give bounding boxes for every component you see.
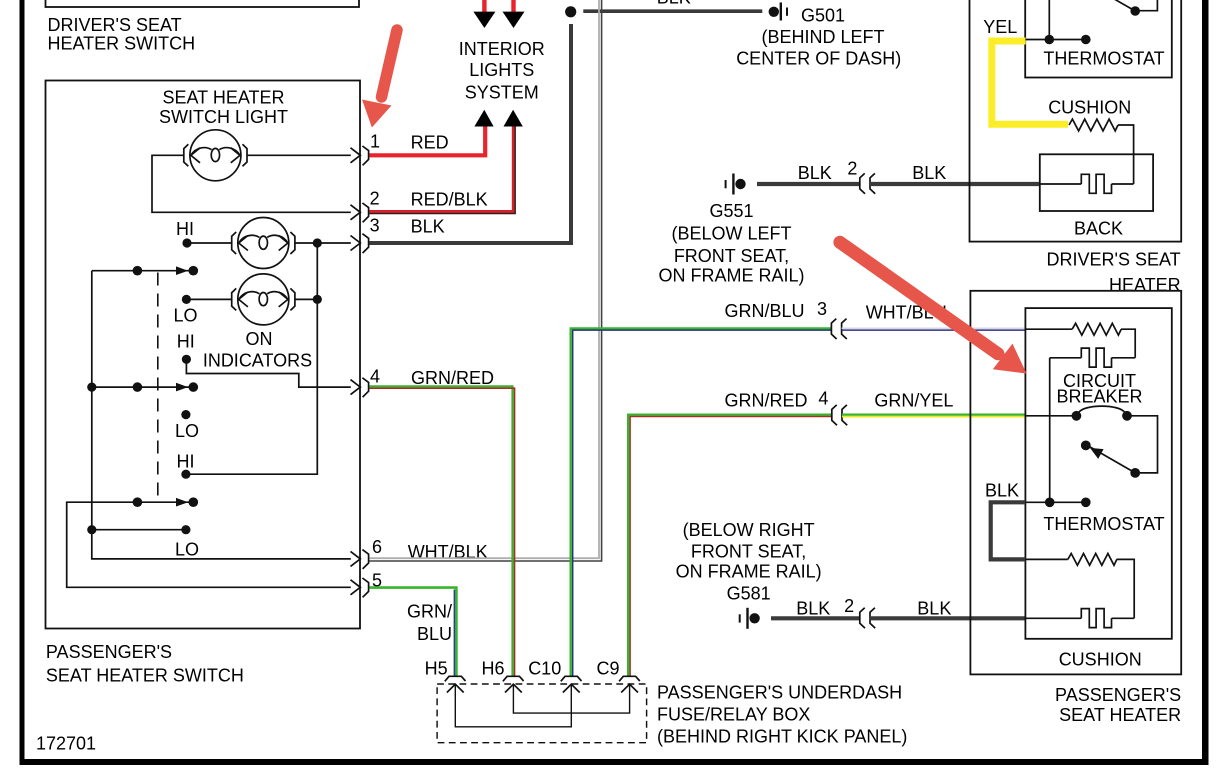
box: driver's seat heater outer (cut off at top) — [970, 0, 1182, 242]
wire: BLK jumper thermostat to cushion resistor — [991, 502, 1026, 559]
connector: in-line female 2 (G551 row) — [860, 173, 875, 193]
svg-text:2: 2 — [847, 159, 857, 179]
svg-text:BLK: BLK — [917, 598, 951, 618]
svg-text:BLU: BLU — [417, 624, 452, 644]
svg-text:HEATER SWITCH: HEATER SWITCH — [48, 34, 196, 54]
svg-text:(BELOW RIGHT: (BELOW RIGHT — [683, 520, 815, 540]
svg-text:THERMOSTAT: THERMOSTAT — [1043, 49, 1164, 69]
svg-text:LO: LO — [175, 421, 199, 441]
svg-text:C9: C9 — [597, 658, 620, 678]
svg-text:GRN/BLU: GRN/BLU — [725, 301, 805, 321]
wire: BLK to ground G501 — [583, 9, 762, 13]
svg-text:LO: LO — [175, 540, 199, 560]
svg-text:HEATER: HEATER — [1109, 275, 1181, 295]
svg-text:PASSENGER'S: PASSENGER'S — [46, 642, 172, 662]
connector: in-line female 3 — [831, 319, 846, 339]
wire: RED/BLK from pin 2 up to interior lights system — [369, 126, 513, 212]
svg-text:HI: HI — [177, 452, 195, 472]
svg-text:DRIVER'S SEAT: DRIVER'S SEAT — [48, 15, 182, 35]
svg-text:172701: 172701 — [36, 733, 96, 753]
wire: lamp right lead to pin 1 — [247, 154, 351, 156]
wire: HI indicator right lead to pin 3 — [295, 242, 351, 244]
svg-text:THERMOSTAT: THERMOSTAT — [1043, 514, 1164, 534]
svg-text:BLK: BLK — [411, 217, 445, 237]
wire: WHT/BLK from pin 6 up page (double line) — [369, 0, 599, 558]
thermostat switch arm (passenger) — [1130, 468, 1140, 478]
connector: pin 3 — [351, 234, 369, 253]
svg-text:3: 3 — [817, 299, 827, 319]
svg-text:SEAT HEATER: SEAT HEATER — [1059, 705, 1181, 725]
switch: pole 2 wiper row — [92, 386, 194, 388]
heating element: passenger seat cushion — [1025, 617, 1081, 619]
node: junction right of HI lamp — [313, 238, 322, 247]
wire: switch common vertical A to pin 6 — [92, 271, 351, 559]
connector: C10 terminal — [561, 676, 582, 692]
svg-text:C10: C10 — [528, 658, 561, 678]
box: passenger's seat heater outer — [970, 291, 1181, 675]
connector: pin 4 — [351, 378, 369, 397]
wire: breaker to thermostat switch arm — [1127, 416, 1158, 473]
svg-text:(BEHIND RIGHT KICK PANEL): (BEHIND RIGHT KICK PANEL) — [657, 727, 907, 747]
connector: in-line female 4 — [832, 405, 847, 425]
arrow: interior lights system up arrow (RED) — [474, 110, 493, 127]
node: HI contact dot pole 3 — [181, 470, 190, 479]
node: junction right of LO lamp — [313, 295, 322, 304]
svg-text:BLK: BLK — [796, 598, 830, 618]
wire: LO contact pole 3 to vertical A — [92, 529, 186, 531]
svg-text:G581: G581 — [727, 583, 771, 603]
svg-text:GRN/: GRN/ — [407, 602, 452, 622]
wire: red stub above right down arrow — [511, 0, 515, 13]
connector: H5 terminal — [445, 676, 466, 692]
svg-text:FRONT SEAT,: FRONT SEAT, — [674, 246, 789, 266]
resistor: passenger cushion heater — [1025, 558, 1067, 560]
box: driver's seat heater switch (partial, cut off at top) — [46, 0, 360, 7]
node: junction vertical A / LO pole 3 line — [87, 525, 96, 534]
svg-text:(BELOW LEFT: (BELOW LEFT — [671, 223, 791, 243]
svg-text:BLK: BLK — [657, 0, 691, 8]
wire: fuse box internal H5 to C10 — [455, 684, 571, 726]
lamp: seat heater switch light bulb — [184, 130, 247, 181]
svg-text:RED: RED — [411, 133, 449, 153]
annotation: red arrow 1 (points at pin 1) — [362, 30, 397, 128]
wire: red stub above left down arrow — [482, 0, 486, 13]
svg-text:FRONT SEAT,: FRONT SEAT, — [691, 541, 806, 561]
svg-text:3: 3 — [370, 216, 380, 236]
svg-text:BACK: BACK — [1074, 218, 1123, 238]
connector: pin 2 — [351, 203, 369, 222]
wire: fuse box internal H6 to C9 — [513, 684, 629, 713]
wire: lamp left lead to pin 2 — [152, 155, 351, 212]
wire: BLK from pin 3 up to G501 junction — [369, 24, 571, 243]
svg-text:ON: ON — [246, 329, 273, 349]
svg-text:GRN/RED: GRN/RED — [725, 391, 808, 411]
svg-text:6: 6 — [372, 537, 382, 557]
wire: LO indicator right lead — [295, 298, 317, 300]
wire: GRN from pin 5 down to H5 — [369, 588, 456, 676]
thermostat: passenger seat heater contacts — [1025, 501, 1085, 503]
connector: pin 5 — [351, 578, 369, 597]
box: passenger's seat heater inner — [1025, 308, 1171, 639]
lamp: LO on-indicator bulb — [232, 274, 295, 325]
node: LO contact dot pole 3 — [181, 525, 190, 534]
resistor: driver cushion heater — [1069, 119, 1118, 131]
wire: element left lead down to thermostat (passenger) — [1049, 358, 1051, 503]
svg-text:SEAT HEATER SWITCH: SEAT HEATER SWITCH — [46, 666, 244, 686]
svg-text:CUSHION: CUSHION — [1059, 650, 1142, 670]
wire: WHT/BLU to passenger seat heater — [842, 329, 1026, 331]
wire: BLK from connector to driver's seat heater back — [870, 182, 1040, 186]
node: HI contact dot pole 1 — [182, 238, 191, 247]
wire: LO indicator left lead — [186, 298, 231, 300]
wire: BLK from connector to passenger's seat heater cushion — [870, 616, 1026, 620]
annotation: red arrow 2 (points at passenger seat heater) — [840, 242, 1027, 373]
circuit breaker: passenger seat heater — [1072, 411, 1082, 421]
ground G551 — [735, 179, 745, 189]
svg-text:2: 2 — [844, 596, 854, 616]
switch: pole 3 wiper row to pin 5 — [67, 502, 351, 587]
wire: indicator common line down to pole 3 HI contact — [186, 243, 317, 474]
ground G581 — [749, 613, 759, 623]
svg-text:HI: HI — [177, 332, 195, 352]
resistor: passenger seat back heater top — [1025, 328, 1072, 330]
svg-text:LO: LO — [174, 306, 198, 326]
arrow: interior lights system down arrow left — [473, 12, 495, 28]
svg-text:H5: H5 — [425, 658, 448, 678]
node: BLK junction dot at top — [565, 6, 576, 17]
svg-text:YEL: YEL — [983, 17, 1017, 37]
svg-text:INTERIOR: INTERIOR — [459, 39, 545, 59]
node: junction vertical A / pole 2 — [87, 383, 96, 392]
svg-text:PASSENGER'S UNDERDASH: PASSENGER'S UNDERDASH — [657, 683, 902, 703]
svg-text:LIGHTS: LIGHTS — [469, 60, 534, 80]
svg-text:(BEHIND LEFT: (BEHIND LEFT — [761, 27, 884, 47]
svg-text:ON FRAME RAIL): ON FRAME RAIL) — [676, 562, 822, 582]
node: LO contact dot pole 1 — [182, 295, 191, 304]
box: passenger's underdash fuse/relay box (dashed) — [437, 684, 646, 743]
box: passenger's seat heater switch — [46, 81, 361, 629]
svg-text:GRN/YEL: GRN/YEL — [874, 391, 953, 411]
connector: C9 terminal — [619, 676, 640, 692]
svg-text:RED/BLK: RED/BLK — [411, 189, 488, 209]
wire: pole 2 HI contact to pin 4 — [186, 359, 350, 387]
svg-text:G551: G551 — [709, 201, 753, 221]
box: driver seat back heater — [1040, 154, 1153, 211]
connector: in-line female 2 (G581 row) — [860, 608, 875, 628]
connector: pin 6 — [351, 550, 369, 569]
svg-text:HI: HI — [176, 219, 194, 239]
switch: mechanical link dashed line — [157, 273, 159, 498]
svg-text:4: 4 — [370, 367, 380, 387]
switch: pole 1 wiper row — [92, 270, 194, 272]
wire: RED from pin 1 up to interior lights system — [369, 125, 485, 155]
svg-text:DRIVER'S SEAT: DRIVER'S SEAT — [1047, 250, 1181, 270]
heating element: driver seat back — [1040, 183, 1082, 185]
wire: GRN/YEL to passenger seat heater — [842, 414, 1025, 416]
thermostat: driver switch arm (cut off at top) — [1130, 6, 1140, 16]
wire: YEL from thermostat to cushion resistor — [992, 41, 1068, 124]
wire: BLK from G551 to connector — [757, 182, 860, 186]
svg-text:SEAT HEATER: SEAT HEATER — [162, 88, 284, 108]
node: HI contact dot pole 2 — [182, 355, 191, 364]
wire: GRN/YEL lead-in to circuit breaker — [1025, 415, 1076, 417]
svg-text:ON FRAME RAIL): ON FRAME RAIL) — [658, 266, 804, 286]
wire: GRN/BLU from C10 up and right to in-line connector 3 — [571, 328, 832, 676]
svg-text:SWITCH LIGHT: SWITCH LIGHT — [159, 107, 288, 127]
thermostat: driver's seat heater contacts — [1025, 39, 1085, 41]
arrow: interior lights system down arrow right — [503, 12, 525, 28]
svg-text:INDICATORS: INDICATORS — [203, 351, 312, 371]
connector: pin 1 — [351, 146, 369, 165]
svg-text:CENTER OF DASH): CENTER OF DASH) — [736, 48, 901, 68]
svg-text:BLK: BLK — [912, 163, 946, 183]
wire: HI indicator left lead — [187, 242, 232, 244]
svg-text:G501: G501 — [801, 6, 845, 26]
svg-text:H6: H6 — [482, 658, 505, 678]
lamp: HI on-indicator bulb — [232, 218, 295, 269]
connector: H6 terminal — [503, 676, 524, 692]
svg-text:CUSHION: CUSHION — [1048, 97, 1131, 117]
box: driver's thermostat inner box (cut off at top) — [1025, 0, 1172, 78]
svg-text:BREAKER: BREAKER — [1056, 386, 1142, 406]
wire: GRN/RED from C9 up and right to in-line connector 4 — [628, 415, 832, 676]
wire: BLK from G581 to connector — [771, 616, 860, 620]
svg-text:2: 2 — [370, 188, 380, 208]
svg-text:GRN/RED: GRN/RED — [411, 368, 494, 388]
ground G501 — [769, 7, 779, 17]
svg-text:FUSE/RELAY BOX: FUSE/RELAY BOX — [657, 705, 810, 725]
svg-text:BLK: BLK — [798, 163, 832, 183]
svg-text:1: 1 — [370, 131, 380, 151]
heating element: passenger seat back — [1050, 357, 1082, 359]
wire: element lead down to thermostat left contact (driver) — [1048, 0, 1050, 40]
svg-text:PASSENGER'S: PASSENGER'S — [1055, 685, 1181, 705]
svg-text:BLK: BLK — [985, 481, 1019, 501]
arrow: interior lights system up arrow (RED/BLK) — [504, 110, 523, 127]
svg-text:4: 4 — [818, 389, 828, 409]
svg-text:SYSTEM: SYSTEM — [465, 82, 539, 102]
wire: GRN/RED from pin 4 down to H6 — [369, 386, 512, 676]
node: LO contact dot pole 2 (unconnected) — [181, 410, 190, 419]
